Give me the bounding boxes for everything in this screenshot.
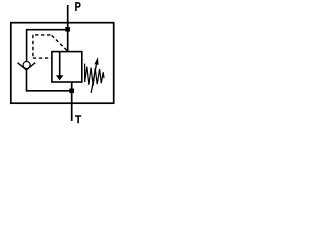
node: junction dot on P line [65,27,70,32]
pilot line (dashed) left edge [32,35,34,59]
port label P [76,3,80,11]
pilot line (dashed) diagonal from P port [51,35,67,50]
spring (right side of valve) [85,64,104,86]
pilot line (dashed) lower edge to valve [33,57,52,59]
component enclosure frame [11,23,114,104]
wire: port P line [67,5,69,52]
wire: check valve to tank line [27,70,72,91]
check valve V1: ball [23,61,30,68]
check valve V1: seat [18,63,36,70]
port label T [75,116,81,124]
pilot line (dashed) top edge [32,34,50,36]
relief valve U1: flow path arrow [59,52,61,75]
wire: branch from P junction to check valve [27,30,68,62]
spring adjustment arrow [91,64,96,93]
wire: port T line [71,82,73,121]
node: junction dot on T line [69,89,74,94]
relief valve U1: envelope square [52,52,82,82]
